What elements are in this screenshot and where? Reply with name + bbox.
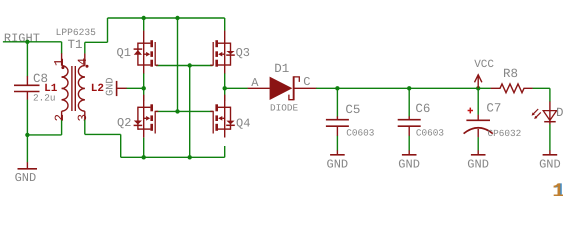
wire mid vertical A [177, 18, 179, 111]
wire A node to D1 [225, 87, 248, 89]
svg-text:Q2: Q2 [117, 116, 131, 130]
label C7 [486, 101, 501, 115]
wire top rail [108, 17, 225, 19]
label C6 [415, 102, 430, 116]
svg-text:C0603: C0603 [416, 127, 445, 138]
svg-text:C6: C6 [415, 102, 430, 116]
wire C8 top [26, 42, 28, 76]
svg-text:GND: GND [467, 158, 489, 172]
wire gate row lower [156, 110, 213, 112]
pin 1 label [53, 58, 68, 66]
label Q2 [117, 116, 131, 130]
svg-text:Q3: Q3 [236, 46, 250, 60]
label D [556, 106, 563, 120]
ground GND sideways [117, 81, 127, 96]
wire output rail [316, 87, 491, 89]
svg-text:GND: GND [106, 78, 117, 96]
node VCC junction [476, 86, 480, 90]
transistor Q4 [210, 95, 235, 138]
wire Q4 source to bottom rail [224, 146, 226, 157]
svg-text:R8: R8 [503, 67, 518, 81]
wire rail to Q1 drain [143, 18, 145, 31]
power VCC [474, 59, 494, 88]
capacitor C5 [326, 116, 349, 136]
ground GND C6 [398, 150, 420, 171]
value LPP6235 [56, 27, 97, 38]
wire T1 pin 4 to top rail [85, 18, 108, 53]
value CP6032 [488, 128, 522, 139]
label T1 [68, 38, 83, 52]
wire C5 to GND [336, 136, 338, 151]
node RIGHT junction at C8 [25, 40, 29, 44]
wire bottom rail [121, 156, 225, 158]
wire C6 top [408, 88, 410, 116]
wire Q2 source to bottom rail [143, 138, 145, 158]
node gate row upper junction [188, 63, 192, 67]
net label RIGHT [4, 32, 40, 46]
svg-text:2: 2 [53, 114, 67, 122]
pin label C [303, 75, 310, 89]
label D1 [274, 62, 289, 76]
pin 4 label [76, 58, 90, 66]
node bottom rail mid junction [188, 155, 192, 159]
label Q4 [236, 116, 250, 130]
svg-text:C0603: C0603 [346, 127, 375, 138]
ground GND left [15, 162, 37, 185]
winding label L1 [44, 83, 58, 95]
svg-text:A: A [251, 76, 259, 90]
svg-text:D1: D1 [274, 62, 289, 76]
page number 1 [552, 181, 563, 204]
svg-text:C: C [303, 75, 310, 89]
pin 3 label [76, 114, 90, 122]
svg-text:D: D [556, 106, 563, 120]
svg-text:C7: C7 [486, 101, 501, 115]
node bottom-left junction [25, 133, 29, 137]
wire to T1 pin 2 [27, 120, 61, 135]
transformer T1 primary winding [61, 53, 68, 120]
transistor Q3 [210, 31, 235, 74]
wire T1 pin 3 to bottom rail [85, 120, 121, 158]
svg-text:DIODE: DIODE [270, 102, 299, 113]
wire rail to Q3 drain [224, 18, 226, 31]
svg-text:RIGHT: RIGHT [4, 32, 40, 46]
label Q3 [236, 46, 250, 60]
capacitor C8 [14, 76, 40, 100]
svg-text:T1: T1 [68, 38, 83, 52]
node C5 junction [335, 86, 339, 90]
node GND tap junction [142, 86, 146, 90]
wire RIGHT drop to T1 pin 1 [61, 42, 63, 54]
value DIODE [270, 102, 299, 113]
wire Q3 source to Q4 drain [224, 73, 226, 101]
svg-text:CP6032: CP6032 [488, 128, 522, 139]
node bottom rail Q2 junction [142, 155, 146, 159]
node A junction [223, 86, 227, 90]
capacitor C6 [398, 116, 421, 136]
node top rail Q1 junction [142, 16, 146, 20]
diode D1 [248, 76, 317, 100]
svg-text:Q4: Q4 [236, 116, 250, 130]
svg-text:L2: L2 [91, 83, 104, 95]
svg-text:1: 1 [53, 58, 68, 66]
value C0603 (C6) [416, 127, 445, 138]
svg-text:GND: GND [539, 158, 561, 172]
value C0603 (C5) [346, 127, 375, 138]
wire C6 to GND [408, 136, 410, 151]
capacitor C7 polarized [464, 108, 493, 138]
wire LED to GND [549, 124, 551, 150]
svg-text:C5: C5 [345, 103, 360, 117]
wire R8 to LED [533, 88, 550, 101]
svg-text:3: 3 [76, 114, 90, 122]
wire RIGHT net horizontal [3, 41, 62, 43]
wire GND drop left [26, 135, 28, 163]
svg-text:GND: GND [398, 158, 420, 172]
svg-text:GND: GND [15, 171, 37, 185]
pin label A [251, 76, 259, 90]
label R8 [503, 67, 518, 81]
transformer T1 core [72, 66, 75, 111]
label C5 [345, 103, 360, 117]
LED D [532, 102, 557, 125]
node top rail mid junction [175, 16, 179, 20]
wire C8 bottom [26, 100, 28, 135]
svg-text:LPP6235: LPP6235 [56, 27, 97, 38]
transistor Q1 [134, 31, 159, 74]
transistor Q2 [134, 95, 159, 138]
wire C5 top [336, 88, 338, 116]
ground GND LED [539, 150, 561, 171]
svg-text:L1: L1 [44, 83, 58, 95]
resistor R8 [491, 84, 533, 93]
svg-text:4: 4 [76, 58, 90, 66]
wire C7 to GND [477, 137, 479, 150]
wire Q1 source to Q2 drain [143, 73, 145, 101]
svg-text:VCC: VCC [474, 59, 494, 71]
svg-text:GND: GND [327, 158, 349, 172]
label C8 [33, 72, 48, 86]
svg-text:1: 1 [552, 181, 563, 196]
wire gate row upper [156, 65, 213, 67]
node C6 junction [407, 86, 411, 90]
transformer T1 secondary winding [78, 53, 88, 120]
winding label L2 [91, 83, 104, 95]
ground GND C5 [327, 150, 349, 171]
pin 2 label [53, 114, 67, 122]
ground GND C7 [467, 150, 489, 171]
svg-text:Q1: Q1 [117, 46, 131, 60]
wire mid vertical B [189, 66, 191, 158]
label Q1 [117, 46, 131, 60]
wire GND tap [126, 87, 144, 89]
label GND sideways [106, 78, 117, 96]
value 2.2u [33, 93, 56, 104]
wire C7 top [477, 88, 479, 115]
node gate row lower junction [175, 109, 179, 113]
